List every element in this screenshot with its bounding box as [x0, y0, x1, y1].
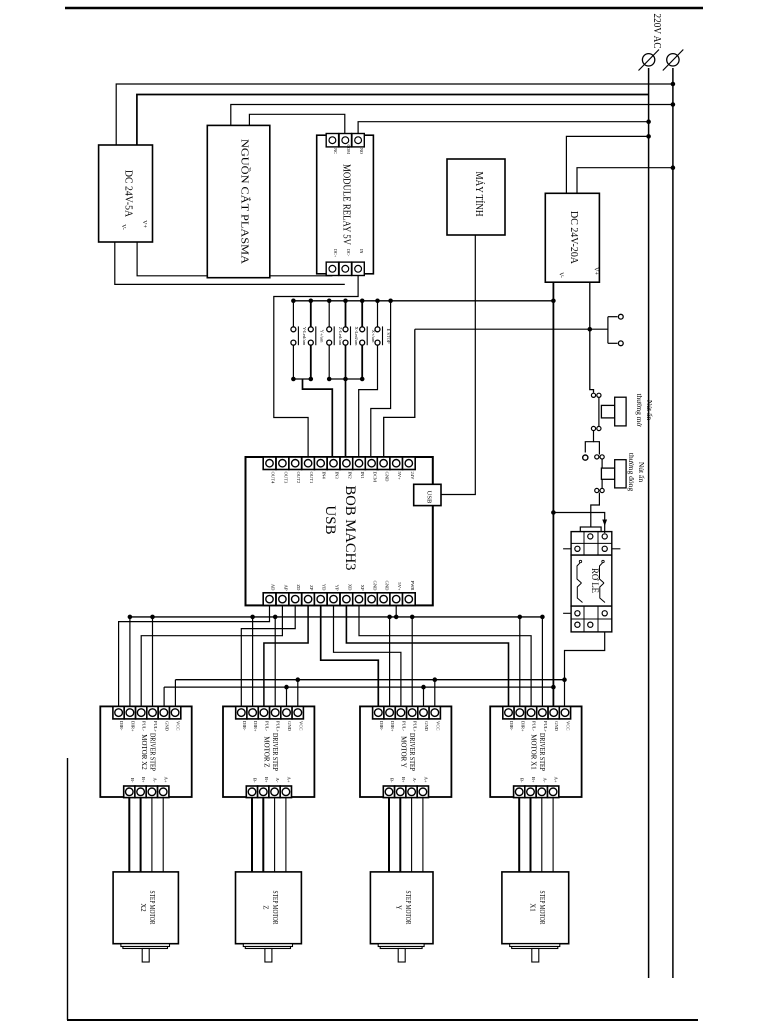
svg-text:DIR-: DIR- [119, 721, 124, 731]
GND bus to drivers [164, 686, 553, 688]
wire XP to driver X1 PUL- [359, 605, 531, 706]
wire ZD to driver Z DIR- [241, 605, 295, 706]
junction on bus N [671, 82, 675, 86]
svg-text:DIR+: DIR+ [130, 721, 135, 732]
svg-text:PUL-: PUL- [142, 721, 147, 732]
svg-text:A+: A+ [286, 777, 291, 783]
wire computer USB cable [441, 235, 475, 495]
junction V+ rail [588, 327, 592, 331]
svg-text:B-: B- [130, 778, 135, 783]
svg-text:PUL-: PUL- [264, 721, 269, 732]
svg-text:24V: 24V [410, 472, 415, 481]
spare terminal circle [583, 455, 588, 460]
svg-text:DIR+: DIR+ [253, 721, 258, 732]
AC input terminal L (circle with slash) [642, 54, 654, 66]
svg-text:XP: XP [360, 585, 365, 591]
wire Y limits to BOB IN3 [303, 379, 333, 458]
svg-text:A-: A- [412, 778, 417, 783]
svg-text:PWR: PWR [410, 581, 415, 592]
svg-text:PUL+: PUL+ [413, 721, 418, 733]
svg-text:DC 24V-5A: DC 24V-5A [123, 170, 134, 218]
wire DC24V-5A AC in 2 to bus L [137, 95, 649, 146]
VCC 24V bus to drivers [175, 679, 564, 681]
push button normally open: terminals [591, 393, 595, 397]
USB connector tab [414, 484, 441, 505]
svg-text:ZD: ZD [296, 584, 301, 591]
wires driver Y to motor [388, 798, 390, 872]
wire switch common to BOB DCM [371, 301, 391, 458]
relay RO LE coil box [571, 555, 612, 606]
wires driver X1 to motor [518, 798, 520, 872]
wires driver X2 to motor [128, 798, 130, 872]
wire ZP to driver Z PUL- [264, 605, 308, 706]
svg-text:GND: GND [424, 721, 429, 732]
wire V- to relay contact [553, 513, 604, 534]
relay stub right upper [612, 548, 621, 550]
wire AD to driver X2 DIR- [119, 605, 270, 706]
svg-text:PUL-: PUL- [532, 721, 537, 732]
svg-text:STEP MOTOR: STEP MOTOR [404, 891, 411, 925]
svg-text:Y-Led/am: Y-Led/am [302, 327, 307, 346]
svg-text:A-: A- [542, 778, 547, 783]
box MODULE RELAY 5V [317, 135, 374, 274]
push button NO actuator [601, 405, 614, 418]
wire relay IN to BOB OUT1 [274, 276, 358, 458]
5V+ common bus to DIR+/PUL+ [395, 605, 397, 617]
svg-text:STEP MOTOR: STEP MOTOR [271, 891, 278, 925]
driver X2 bottom terminal strip [124, 786, 135, 798]
svg-text:GND: GND [385, 472, 390, 483]
svg-text:GND: GND [287, 721, 292, 732]
wire button NO out [585, 431, 593, 453]
svg-text:OUT1: OUT1 [309, 472, 314, 484]
svg-text:USB: USB [426, 491, 433, 504]
BOB top terminal strip [263, 457, 276, 470]
svg-text:A-: A- [275, 778, 280, 783]
wire V+ to relay DC+ [137, 242, 332, 276]
svg-text:Y+/am: Y+/am [320, 330, 325, 343]
svg-text:PUL+: PUL+ [543, 721, 548, 733]
svg-text:AD: AD [271, 584, 276, 591]
relay RO LE top tab [580, 527, 601, 532]
svg-text:COM: COM [346, 144, 351, 154]
svg-text:X2: X2 [139, 903, 146, 912]
svg-text:YD: YD [322, 584, 327, 591]
svg-text:B+: B+ [531, 777, 536, 783]
wire DC24V-5A AC in 1 to bus N [116, 84, 673, 145]
svg-text:MODULE RELAY 5V: MODULE RELAY 5V [341, 164, 352, 246]
wire X limits to BOB IN2 [345, 345, 347, 457]
svg-text:IN1: IN1 [360, 472, 365, 480]
svg-text:B-: B- [520, 778, 525, 783]
wire YP to driver Y PUL- [334, 605, 401, 706]
wire plasma AC 1 to bus N [231, 105, 673, 126]
svg-text:B-: B- [390, 778, 395, 783]
wire Y limit pair join [292, 345, 294, 379]
junction V- / relay feed [552, 511, 556, 515]
wire V+ down to push button NO [590, 282, 594, 393]
wire limit switch common bus [293, 300, 553, 302]
AC bus wire L [648, 68, 650, 978]
junction relay out / VCC bus [563, 678, 567, 682]
limit switch E STOP [376, 299, 380, 303]
svg-text:USB: USB [322, 505, 338, 534]
svg-text:GND: GND [385, 581, 390, 592]
wire relay NO to bus L [358, 122, 648, 134]
svg-text:DIR-: DIR- [509, 721, 514, 731]
svg-text:IN4: IN4 [322, 472, 327, 480]
svg-text:V-: V- [120, 224, 126, 230]
svg-text:V+: V+ [141, 220, 147, 228]
svg-text:Nút ấn: Nút ấn [637, 462, 646, 482]
svg-text:VCC: VCC [176, 721, 181, 730]
step motor X2 [113, 872, 178, 944]
svg-text:OUT2: OUT2 [296, 472, 301, 484]
svg-text:MOTOR Z: MOTOR Z [263, 736, 271, 767]
svg-text:DRIVER STEP: DRIVER STEP [148, 733, 156, 771]
svg-text:DIR+: DIR+ [520, 721, 525, 732]
svg-text:A+: A+ [423, 777, 428, 783]
limit switch Y+/am [309, 299, 313, 303]
svg-text:Z-Led/am: Z-Led/am [338, 327, 343, 346]
driver X2 top terminal strip [113, 706, 124, 719]
svg-text:OUT3: OUT3 [283, 472, 288, 484]
arrow on relay feed wire [602, 520, 607, 527]
svg-text:OUT4: OUT4 [271, 472, 276, 484]
driver X1 top terminal strip [503, 706, 514, 719]
AC bus wire N [672, 68, 674, 978]
relay stub left lower [563, 612, 571, 614]
relay RO LE lower contact block [571, 606, 612, 632]
relay coil pin a [579, 560, 581, 562]
svg-text:IN: IN [359, 249, 364, 253]
svg-text:5V+: 5V+ [397, 472, 402, 481]
wire V+ rail to torch connector [415, 328, 608, 330]
drawing frame: bottom edge line [67, 1019, 698, 1021]
box NGUON CAT PLASMA [207, 125, 270, 277]
relay bottom terminal block DC+ DC- IN [326, 262, 338, 275]
svg-text:Y: Y [395, 905, 402, 910]
push button normally closed: terminals [595, 455, 599, 459]
svg-text:DIR+: DIR+ [390, 721, 395, 732]
limit switch X+/am [360, 299, 364, 303]
svg-text:thường mở: thường mở [635, 393, 644, 427]
wire V- to relay DC- [115, 242, 345, 284]
driver step motor Z [223, 706, 314, 797]
svg-text:B+: B+ [401, 777, 406, 783]
wire YD to driver Y DIR- [321, 605, 379, 706]
power supply DC 24V-5A [99, 145, 153, 242]
wires driver Z to motor [251, 798, 253, 872]
svg-text:DCM: DCM [373, 472, 378, 482]
svg-text:MOTOR Y: MOTOR Y [400, 736, 408, 768]
svg-text:5V+: 5V+ [397, 582, 402, 591]
wire E-STOP to BOB IN1 [359, 345, 378, 457]
svg-text:RƠ LE: RƠ LE [590, 568, 600, 593]
svg-text:DC-: DC- [346, 249, 351, 257]
svg-text:ZP: ZP [309, 585, 314, 591]
svg-text:GND: GND [164, 721, 169, 732]
svg-text:DC+: DC+ [333, 249, 338, 258]
svg-text:IN3: IN3 [335, 472, 340, 480]
driver step motor Y [360, 706, 451, 797]
svg-text:B+: B+ [264, 777, 269, 783]
driver Z bottom terminal strip [246, 786, 257, 798]
wire V- main vertical to driver X1 GND [552, 282, 554, 706]
relay stub left upper [563, 548, 571, 550]
BOB bottom terminal strip [263, 593, 276, 606]
wire to button NC [594, 442, 600, 455]
svg-text:V+: V+ [593, 267, 599, 275]
svg-text:DIR-: DIR- [242, 721, 247, 731]
svg-text:MOTOR X2: MOTOR X2 [140, 734, 148, 770]
junction on bus L [647, 135, 651, 139]
junction V- / switch common [552, 299, 556, 303]
relay coil pin b [602, 560, 604, 562]
board BOB MACH3 USB [246, 457, 433, 605]
junction on bus N [671, 103, 675, 107]
svg-text:AP: AP [283, 585, 288, 591]
svg-text:DC 24V-20A: DC 24V-20A [568, 211, 579, 265]
svg-text:VCC: VCC [298, 721, 303, 730]
box MAY TINH computer [447, 159, 505, 235]
junction on bus N [671, 166, 675, 170]
wire plasma 2 to relay COM [249, 114, 344, 133]
svg-text:thường đóng: thường đóng [627, 453, 636, 491]
step motor Y [370, 872, 433, 944]
svg-text:STEP MOTOR: STEP MOTOR [148, 891, 155, 925]
svg-text:A-: A- [152, 778, 157, 783]
svg-text:220V AC: 220V AC [651, 14, 662, 49]
wire AP to driver X2 PUL- [141, 605, 282, 706]
svg-text:MOTOR X1: MOTOR X1 [530, 734, 538, 770]
svg-text:X-Led/am: X-Led/am [354, 327, 359, 346]
svg-text:PUL-: PUL- [401, 721, 406, 732]
svg-text:MÁY TÍNH: MÁY TÍNH [473, 172, 485, 217]
drawing frame: top edge line [65, 7, 703, 10]
svg-text:PUL+: PUL+ [153, 721, 158, 733]
svg-text:X1: X1 [528, 903, 535, 911]
svg-text:IN2: IN2 [347, 472, 352, 480]
svg-text:Nút ấn: Nút ấn [645, 400, 654, 420]
svg-text:B-: B- [253, 778, 258, 783]
wire Z/X limit group join [328, 345, 330, 379]
svg-text:STEP MOTOR: STEP MOTOR [538, 891, 545, 925]
svg-text:NO: NO [359, 148, 364, 154]
limit switch Z-Led/am [327, 299, 331, 303]
junction on bus L [647, 120, 651, 124]
svg-text:DRIVER STEP: DRIVER STEP [408, 733, 416, 771]
driver X1 bottom terminal strip [514, 786, 525, 798]
power supply DC 24V-20A [545, 193, 599, 282]
junction V- / GND bus [552, 685, 556, 689]
svg-text:V-: V- [558, 272, 564, 278]
svg-text:NC: NC [333, 148, 338, 154]
relay RO LE upper contact block [571, 532, 612, 556]
push button NC actuator [601, 468, 614, 479]
wire relay out to driver X1 VCC [565, 632, 605, 707]
step motor X1 [502, 872, 569, 944]
driver step motor X2 [100, 706, 191, 797]
limit switch Y-Led/am [292, 299, 296, 303]
driver Y top terminal strip [373, 706, 384, 719]
svg-text:VCC: VCC [435, 721, 440, 730]
wire button NC out to relay [591, 493, 600, 534]
svg-text:Z: Z [261, 905, 268, 909]
wire DC20A AC 1 to bus L [566, 136, 648, 193]
svg-text:A+: A+ [164, 777, 169, 783]
svg-text:DRIVER STEP: DRIVER STEP [538, 733, 546, 771]
wire DC20A AC 2 to bus N [577, 168, 673, 194]
push button NC bridge contact [601, 455, 603, 492]
svg-text:B+: B+ [141, 777, 146, 783]
driver step motor X1 [490, 706, 581, 797]
svg-text:BOB MACH3: BOB MACH3 [342, 486, 358, 571]
svg-text:DIR-: DIR- [379, 721, 384, 731]
svg-text:DRIVER STEP: DRIVER STEP [271, 733, 279, 771]
svg-text:GND: GND [373, 581, 378, 592]
svg-text:PUL+: PUL+ [276, 721, 281, 733]
push button NO bridge contact [598, 395, 600, 428]
svg-text:VCC: VCC [566, 721, 571, 730]
drawing frame: left edge line [67, 758, 69, 1020]
AC input terminal N (circle with slash) [667, 54, 679, 66]
limit switch X-Led/am [344, 299, 348, 303]
relay top terminal block NC COM NO [326, 134, 338, 147]
torch output connector (2 pins) [607, 317, 609, 344]
wire XD to driver X1 DIR- [346, 605, 508, 706]
svg-text:YP: YP [335, 585, 340, 591]
wire V+ to BOB 24V terminal [384, 329, 415, 457]
driver Z top terminal strip [236, 706, 247, 719]
svg-text:A+: A+ [554, 777, 559, 783]
step motor Z [236, 872, 302, 944]
svg-text:NGUỒN CẮT PLASMA: NGUỒN CẮT PLASMA [239, 139, 252, 264]
svg-text:XD: XD [347, 584, 352, 591]
svg-text:GND: GND [554, 721, 559, 732]
driver Y bottom terminal strip [383, 786, 394, 798]
